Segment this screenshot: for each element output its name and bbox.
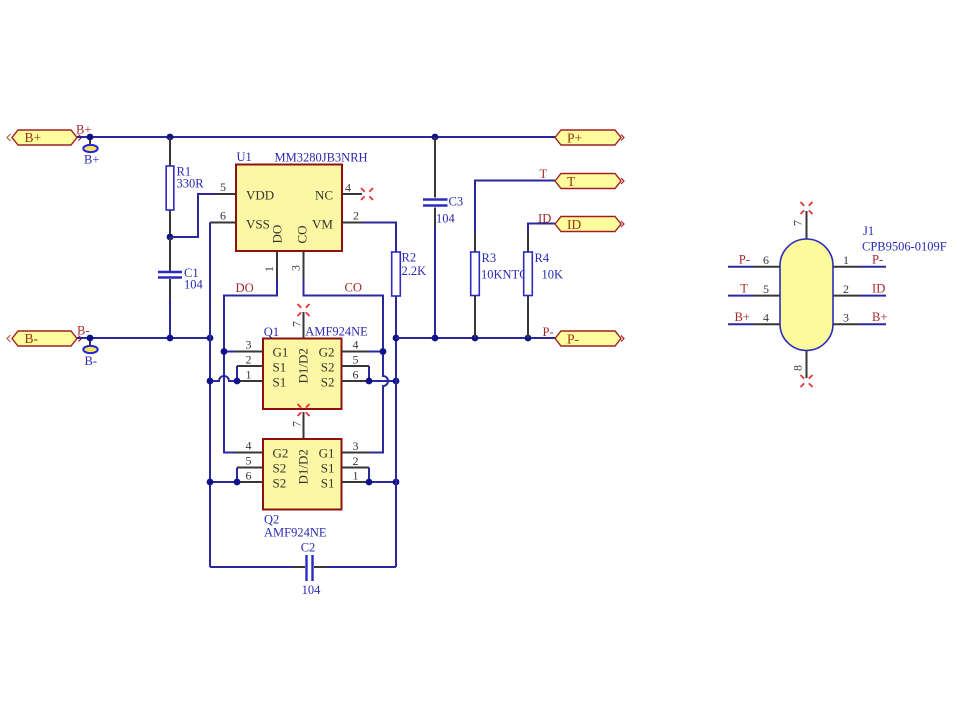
svg-text:P-: P- (872, 253, 883, 267)
wire ID net (528, 224, 555, 233)
svg-text:B-: B- (25, 331, 39, 346)
svg-text:C3: C3 (449, 195, 464, 209)
svg-text:U1: U1 (237, 150, 252, 164)
J1 pin 2 (833, 295, 859, 297)
svg-text:AMF924NE: AMF924NE (305, 325, 368, 339)
svg-text:G2: G2 (273, 446, 289, 461)
node B+ ellipse marker (83, 137, 99, 167)
svg-text:4: 4 (763, 311, 769, 325)
junction (167, 335, 174, 342)
svg-text:3: 3 (843, 311, 849, 325)
resistor R3 (471, 232, 528, 338)
svg-text:T: T (540, 167, 548, 181)
svg-text:D1/D2: D1/D2 (296, 449, 311, 484)
Q2 pin 1 S1 (342, 481, 369, 483)
svg-text:5: 5 (763, 282, 769, 296)
Q2 pin 7 D1/D2 with no-ERC X (303, 412, 305, 439)
svg-text:P+: P+ (567, 131, 582, 146)
svg-text:DO: DO (269, 225, 284, 244)
wire Q1 sources to P- column (369, 380, 396, 382)
J1 pin 5 (728, 295, 754, 297)
svg-text:D1/D2: D1/D2 (296, 348, 311, 383)
svg-text:B+: B+ (84, 153, 99, 167)
svg-text:2: 2 (353, 209, 359, 223)
wire P- column (395, 296, 397, 567)
node B- ellipse marker (83, 338, 97, 368)
junction (432, 134, 439, 141)
port P+ (555, 130, 624, 146)
svg-text:B-: B- (85, 354, 98, 368)
Q1 pin 5 S2 (342, 365, 369, 367)
U1 pin 6 VSS (210, 222, 236, 224)
svg-text:S1: S1 (321, 461, 335, 476)
Q1 pin 6 S2 (342, 380, 369, 382)
transistor Q2 body AMF924NE (263, 439, 342, 540)
svg-text:10K: 10K (542, 268, 564, 282)
svg-text:1: 1 (262, 266, 276, 272)
svg-text:MM3280JB3NRH: MM3280JB3NRH (275, 151, 368, 165)
resistor R1 (166, 137, 204, 237)
wire P- rail (396, 337, 556, 339)
wire B- column to Q2 sources (210, 481, 237, 483)
junction (87, 134, 94, 141)
svg-text:CPB9506-0109F: CPB9506-0109F (862, 240, 947, 254)
Q1 pin 3 G1 (235, 351, 263, 353)
svg-text:S1: S1 (321, 476, 335, 491)
svg-text:ID: ID (567, 217, 581, 232)
svg-text:104: 104 (436, 212, 456, 226)
svg-text:6: 6 (246, 469, 252, 483)
J1 pin 8 bottom with no-ERC X (806, 351, 808, 379)
junction (167, 134, 174, 141)
svg-text:G2: G2 (319, 345, 335, 360)
svg-text:2: 2 (843, 282, 849, 296)
svg-text:ID: ID (872, 282, 885, 296)
svg-text:S2: S2 (321, 360, 335, 375)
Q1 pin 4 G2 (342, 351, 368, 353)
Q2 pin 6 S2 (237, 481, 263, 483)
svg-text:G1: G1 (319, 446, 335, 461)
svg-text:2: 2 (353, 454, 359, 468)
svg-text:Q2: Q2 (264, 513, 279, 527)
svg-text:4: 4 (246, 439, 252, 453)
port ID (555, 217, 624, 233)
Q2 pin 4 G2 (236, 452, 263, 454)
svg-text:8: 8 (791, 365, 805, 371)
svg-text:G1: G1 (273, 345, 289, 360)
svg-text:5: 5 (353, 353, 359, 367)
port P- (555, 331, 624, 347)
IC U1 MM3280JB3NRH (236, 150, 368, 251)
J1 pin 4 (728, 323, 754, 325)
svg-text:B+: B+ (734, 310, 750, 324)
resistor R4 (524, 232, 563, 338)
Q2 pin 5 S2 (237, 467, 263, 469)
svg-text:T: T (567, 174, 576, 189)
Q1 pin 1 S1 (237, 380, 263, 382)
svg-text:7: 7 (791, 220, 805, 226)
U1 pin 2 VM (342, 222, 362, 224)
wire Q2 sources to P- column (369, 481, 396, 483)
svg-text:B+: B+ (872, 310, 888, 324)
svg-text:3: 3 (289, 265, 303, 271)
svg-text:R2: R2 (402, 251, 417, 265)
svg-text:J1: J1 (863, 224, 874, 238)
port B+ (7, 130, 82, 145)
U1 pin 4 NC (342, 193, 362, 195)
svg-text:5: 5 (246, 454, 252, 468)
svg-text:6: 6 (763, 253, 769, 267)
svg-text:S2: S2 (321, 375, 335, 390)
capacitor C2 (210, 541, 396, 598)
Q1 pin 7 D1/D2 with no-ERC X (303, 312, 305, 339)
svg-text:1: 1 (843, 253, 849, 267)
no-ERC X on NC (361, 188, 373, 200)
svg-text:2: 2 (246, 353, 252, 367)
wire B+ top rail (77, 136, 556, 138)
wire VSS column (209, 223, 211, 568)
svg-text:NC: NC (315, 188, 333, 203)
capacitor C1 (158, 237, 204, 338)
svg-text:P-: P- (567, 332, 580, 347)
J1 pin 7 top with no-ERC X (806, 211, 808, 239)
U1 pin 3 CO (303, 251, 305, 279)
wire Q2 S2 tie (236, 468, 238, 483)
svg-text:B+: B+ (25, 130, 42, 145)
svg-text:7: 7 (290, 421, 304, 427)
svg-text:CO: CO (345, 281, 363, 295)
svg-text:6: 6 (220, 209, 226, 223)
transistor Q1 body AMF924NE (263, 325, 368, 410)
svg-text:4: 4 (353, 338, 359, 352)
svg-text:VDD: VDD (246, 188, 274, 203)
wire CO net (hops over y=381) (304, 279, 389, 453)
svg-text:P-: P- (543, 325, 554, 339)
svg-text:C2: C2 (301, 541, 316, 555)
capacitor C3 (423, 137, 463, 338)
junction (207, 335, 214, 342)
wire VM to R2 (362, 223, 396, 253)
svg-text:104: 104 (302, 583, 322, 597)
J1 pin 6 (728, 266, 754, 268)
wire Q2 S1 tie (368, 468, 370, 483)
svg-text:R4: R4 (535, 251, 550, 265)
J1 pin 1 (833, 266, 859, 268)
junction (167, 234, 174, 241)
Q2 pin 3 G1 (342, 452, 369, 454)
svg-text:1: 1 (353, 469, 359, 483)
svg-text:T: T (740, 282, 748, 296)
svg-text:S2: S2 (273, 476, 287, 491)
wire Q1 S2 tie (368, 366, 370, 381)
wire DO net (224, 279, 277, 453)
svg-text:AMF924NE: AMF924NE (264, 526, 327, 540)
svg-text:330R: 330R (177, 177, 205, 191)
svg-text:CO: CO (295, 225, 310, 243)
svg-text:ID: ID (538, 212, 551, 226)
U1 pin 1 DO (276, 251, 278, 279)
svg-text:6: 6 (353, 368, 359, 382)
svg-text:7: 7 (290, 321, 304, 327)
svg-text:S1: S1 (273, 375, 287, 390)
svg-text:Q1: Q1 (264, 325, 279, 339)
U1 pin 5 VDD (216, 193, 236, 195)
wire B- to Q1 sources (hops over DO at x=224) (210, 376, 237, 381)
wire B- rail (77, 337, 210, 339)
svg-text:VM: VM (312, 217, 333, 232)
svg-text:DO: DO (236, 281, 254, 295)
svg-text:4: 4 (345, 181, 351, 195)
Q1 pin 2 S1 (237, 365, 263, 367)
svg-text:B-: B- (77, 324, 90, 338)
svg-text:3: 3 (246, 338, 252, 352)
svg-text:R3: R3 (482, 251, 497, 265)
wire T net (475, 181, 555, 233)
junction (87, 335, 94, 342)
svg-text:5: 5 (220, 180, 226, 194)
svg-text:104: 104 (184, 278, 204, 292)
svg-text:S2: S2 (273, 461, 287, 476)
port T (555, 174, 624, 190)
svg-text:2.2K: 2.2K (402, 264, 427, 278)
resistor R2 (392, 251, 426, 339)
svg-text:1: 1 (246, 368, 252, 382)
Q2 pin 2 S1 (342, 467, 369, 469)
svg-text:S1: S1 (273, 360, 287, 375)
J1 pin 3 (833, 323, 859, 325)
wire VDD link (170, 194, 216, 237)
connector J1 CPB9506-0109F (780, 224, 947, 351)
wire Q1 S1 tie (236, 366, 238, 381)
svg-text:3: 3 (353, 439, 359, 453)
svg-text:10KNTC: 10KNTC (481, 268, 528, 282)
port B- (7, 331, 82, 346)
svg-text:P-: P- (739, 253, 750, 267)
svg-text:VSS: VSS (246, 217, 270, 232)
